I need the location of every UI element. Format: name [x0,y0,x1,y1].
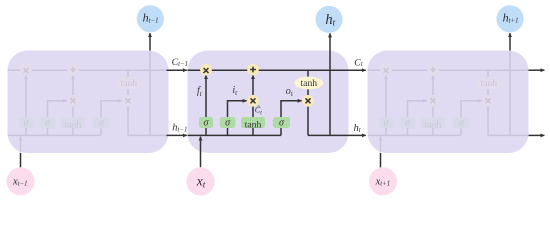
svg-text:Ct: Ct [354,58,364,69]
svg-text:ht: ht [354,123,362,134]
svg-text:Ct−1: Ct−1 [172,57,188,68]
svg-text:ht−1: ht−1 [172,123,187,134]
